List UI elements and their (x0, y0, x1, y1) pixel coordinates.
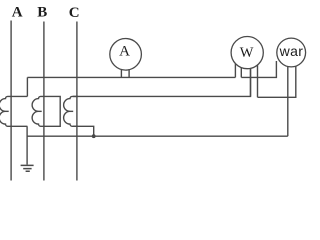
wire phase B bus (43, 22, 45, 181)
svg-text:W: W (240, 45, 254, 61)
ammeter A (110, 39, 142, 71)
svg-text:A: A (12, 5, 23, 21)
svg-text:war: war (279, 43, 304, 59)
TA2 winding cusp tick (39, 110, 42, 112)
wattmeter voltage pin stub right (257, 65, 259, 97)
junction node dot (92, 134, 96, 138)
wattmeter W (231, 37, 263, 69)
wire TA3 top to wattmeter voltage terminal (73, 68, 251, 96)
ground symbol (21, 165, 34, 171)
wattmeter voltage pin stub left (250, 68, 252, 96)
svg-text:A: A (119, 44, 130, 60)
wire wattmeter current out to varmeter left side (241, 61, 276, 77)
wire neutral common line (27, 135, 288, 137)
wire varmeter to neutral (287, 66, 289, 136)
wire TA1 secondary top to ammeter line (26, 77, 28, 96)
wire TA1 secondary bottom to earth (26, 126, 28, 164)
varmeter war (277, 38, 306, 67)
current transformer TA2 secondary winding on phase B (32, 96, 60, 126)
wire phase C bus (76, 22, 78, 181)
svg-text:C: C (69, 5, 80, 21)
wattmeter current pin stub in (234, 64, 236, 78)
current transformer TA3 secondary winding on phase C (64, 96, 78, 126)
wire TA3 bottom to neutral junction (73, 126, 94, 136)
ammeter pin stubs (121, 69, 129, 77)
wattmeter current pin stub out (240, 68, 242, 78)
wire phase A bus (10, 21, 12, 181)
TA3 winding cusp tick (70, 110, 73, 112)
TA1 winding cusp tick (6, 110, 9, 112)
svg-text:B: B (37, 5, 47, 21)
current transformer TA1 secondary winding on phase A (0, 96, 27, 126)
wire ammeter measuring line (27, 76, 235, 78)
wire wattmeter voltage to varmeter voltage pin (258, 66, 296, 97)
